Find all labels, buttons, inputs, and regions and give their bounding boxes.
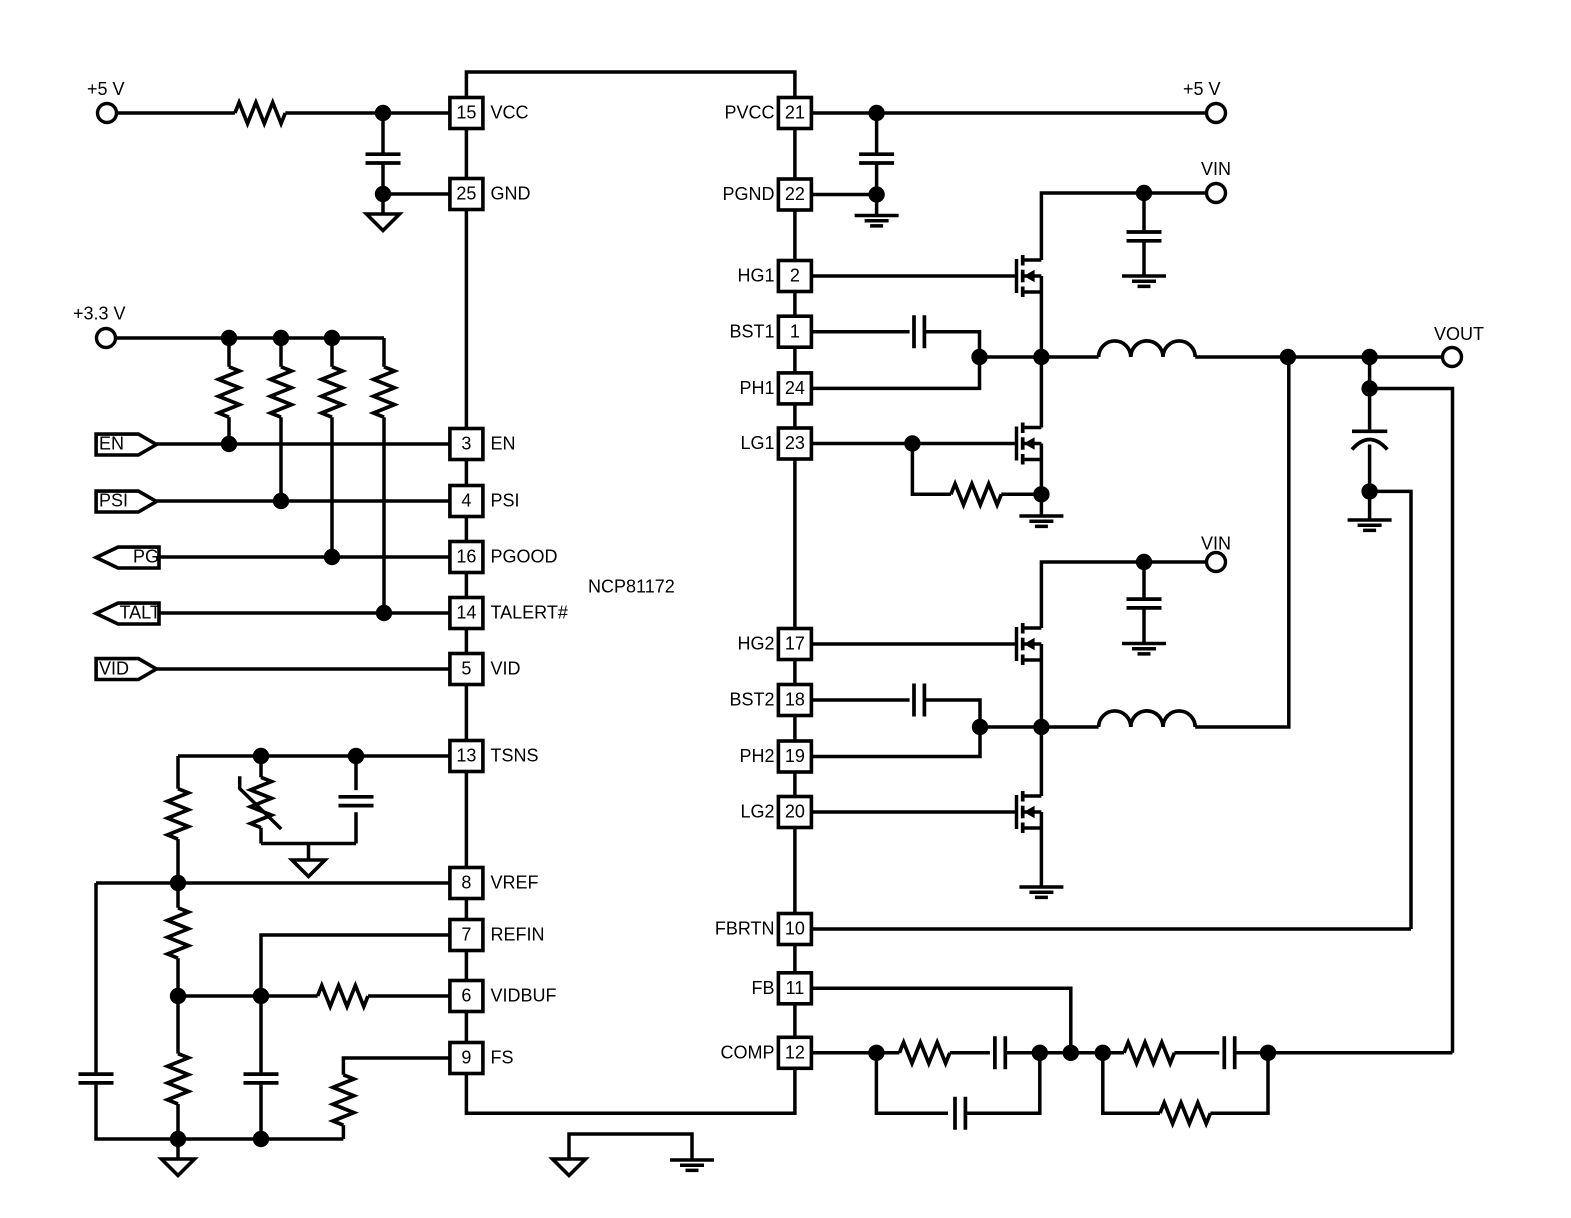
capacitor C5 (PVCC decoupling) (859, 113, 894, 195)
node rail junction R2 (221, 330, 237, 346)
svg-text:9: 9 (461, 1048, 471, 1068)
node C10 bottom junction (1361, 483, 1377, 499)
node switch 1 FET junction (1033, 349, 1049, 365)
svg-text:PVCC: PVCC (724, 103, 774, 123)
wire PH2 pin 19 to switch node 2 (811, 727, 980, 757)
wire Q4 drain to switch node 2 (1040, 727, 1044, 796)
pin 17 HG2 (737, 629, 811, 660)
resistor R1 (VCC series) (235, 103, 285, 124)
transistor Q3 (high-side phase 2) (1017, 623, 1042, 665)
ground (triangle) tie left (553, 1159, 586, 1176)
svg-text:VID: VID (491, 659, 521, 679)
svg-text:+5 V: +5 V (1183, 79, 1221, 99)
pin 23 LG1 (740, 428, 811, 459)
wire C12 to VOUT sense leg (1235, 1051, 1453, 1055)
wire +5V terminal to R1 (118, 111, 235, 115)
node VID flag (96, 659, 156, 680)
svg-text:HG1: HG1 (737, 266, 774, 286)
svg-text:2: 2 (790, 266, 800, 286)
svg-text:3: 3 (461, 434, 471, 454)
node PGND junction (868, 186, 884, 202)
wire LG1 pin 23 to Q2 gate (811, 442, 1015, 446)
capacitor C1 (VCC decoupling) (366, 154, 401, 163)
capacitor C10 (output, polarized) (1352, 389, 1387, 492)
terminal +5V (right) (1183, 79, 1226, 123)
pin 5 VID (450, 654, 521, 685)
svg-text:+3.3 V: +3.3 V (73, 304, 126, 324)
svg-text:PH1: PH1 (739, 378, 774, 398)
wire FBRTN pin 10 (811, 927, 1411, 931)
node VIN1 junction (1136, 185, 1152, 201)
wire C3 to bottom rail (96, 1085, 178, 1139)
wire LG2 pin 20 to Q4 gate (811, 810, 1015, 814)
wire sense node to right feedback leg (1370, 389, 1453, 1053)
pin 20 LG2 (740, 797, 811, 828)
wire Q2 drain to switch node 1 (1040, 357, 1044, 428)
wire Q3 drain to VIN2 rail (1041, 562, 1205, 628)
wire PG flag to pin 16 (159, 555, 450, 559)
wire TSNS pin 13 rail (178, 754, 450, 758)
node switch 2 BST junction (972, 719, 988, 735)
wire R1 to VCC pin 15 (285, 111, 450, 115)
svg-text:EN: EN (491, 434, 516, 454)
svg-text:23: 23 (785, 433, 805, 453)
svg-text:16: 16 (456, 547, 476, 567)
wire C10 bottom to ground (1368, 491, 1372, 520)
svg-text:VIDBUF: VIDBUF (491, 986, 557, 1006)
node PG flag (96, 547, 159, 569)
resistor R9 (divider bottom) (168, 996, 189, 1139)
svg-text:7: 7 (461, 925, 471, 945)
ground (power) below C6 (1122, 276, 1166, 286)
wire C9 to switch node 2 (924, 700, 980, 727)
wire bottom rail (178, 1137, 343, 1141)
svg-text:NCP81172: NCP81172 (588, 577, 675, 597)
svg-text:TSNS: TSNS (491, 746, 539, 766)
wire Q3 source to switch node / L2 (980, 644, 1099, 727)
svg-text:HG2: HG2 (737, 634, 774, 654)
transistor Q1 (high-side phase 1) (1017, 255, 1042, 297)
pin 4 PSI (450, 486, 520, 517)
wire VID flag to pin 5 (156, 667, 450, 671)
wire rail to ground (176, 1139, 180, 1159)
capacitor C4 (REFIN to gnd) (244, 996, 279, 1139)
resistor R3 (PSI pull-up) (271, 338, 292, 501)
node VOUT junction phase2 leg (1280, 349, 1296, 365)
svg-text:12: 12 (785, 1043, 805, 1063)
svg-text:PSI: PSI (491, 491, 520, 511)
wire C1 to GND pin 25 node (383, 164, 450, 194)
pin 6 VIDBUF (450, 981, 557, 1012)
wire R12 to C11 (950, 1051, 990, 1055)
pin 7 REFIN (450, 920, 545, 951)
resistor R6 (TSNS divider top) (168, 756, 189, 883)
svg-text:EN: EN (99, 434, 124, 454)
node PSI flag (96, 491, 156, 513)
node bottom rail junction right (253, 1131, 269, 1147)
resistor R8 (VIDBUF series) (318, 986, 368, 1007)
pin 1 BST1 (729, 316, 811, 347)
svg-text:21: 21 (785, 103, 805, 123)
svg-text:VOUT: VOUT (1434, 324, 1484, 344)
capacitor C3 (VREF to gnd) (79, 1074, 114, 1083)
node R11 source junction (1033, 486, 1049, 502)
pin 21 PVCC (724, 98, 811, 129)
wire TALT flag to pin 14 (159, 611, 450, 615)
wire Q1 source to switch node / L1 (980, 276, 1099, 357)
wire FS pin 9 to R10 (343, 1058, 450, 1075)
pin 12 COMP (721, 1037, 812, 1068)
node VIN2 junction (1136, 554, 1152, 570)
terminal VIN (phase 2) (1201, 534, 1231, 572)
svg-text:1: 1 (790, 321, 800, 341)
resistor R10 (FS set) (333, 1075, 354, 1139)
wire FB pin 11 to COMP net (811, 988, 1070, 1053)
capacitor C2 (TSNS filter) (339, 756, 374, 844)
pin 19 PH2 (739, 741, 811, 772)
wire VCC node down to C1 (381, 113, 385, 153)
pin 16 PGOOD (450, 542, 558, 573)
svg-text:18: 18 (785, 690, 805, 710)
wire REFIN pin 7 to divider (261, 935, 450, 996)
wire BST2 pin 18 to C9 (811, 698, 909, 702)
resistor R14 (feedback parallel, lower branch) (1103, 1053, 1268, 1124)
node VREF junction (170, 875, 186, 891)
pin 2 HG1 (737, 261, 811, 292)
svg-text:PSI: PSI (99, 491, 128, 511)
wire COMP pin 12 (811, 1051, 899, 1055)
svg-text:FS: FS (491, 1048, 514, 1068)
node feedback right junction (1260, 1045, 1276, 1061)
svg-text:COMP: COMP (721, 1043, 775, 1063)
node VCC junction (375, 105, 391, 121)
pin 18 BST2 (729, 685, 811, 716)
node rail junction R4 (324, 330, 340, 346)
svg-text:FB: FB (751, 978, 774, 998)
wire +3.3V rail (117, 336, 385, 340)
node switch 1 BST junction (971, 349, 987, 365)
wire L1 to VOUT (1195, 355, 1441, 359)
svg-text:19: 19 (785, 746, 805, 766)
resistor R5 (TALERT# pull-up) (374, 338, 395, 613)
ground (triangle) bottom left (162, 1159, 195, 1176)
wire PGND pin 22 to C5 (811, 193, 876, 197)
capacitor C13 (comp parallel, lower branch) (876, 1053, 1039, 1130)
svg-text:GND: GND (491, 184, 531, 204)
svg-text:FBRTN: FBRTN (715, 919, 775, 939)
wire HG1 pin 2 to Q1 gate (811, 274, 1015, 278)
capacitor C11 (comp series) (995, 1036, 1005, 1069)
node PSI junction (273, 493, 289, 509)
wire R8 to VIDBUF pin 6 (368, 994, 450, 998)
wire VREF left leg down to C3 (94, 883, 98, 1072)
wire tie to ground (307, 844, 311, 860)
node rail junction R3 (273, 330, 289, 346)
pin 9 FS (450, 1043, 514, 1074)
pin 24 PH1 (739, 373, 811, 404)
inductor L2 (1099, 711, 1196, 727)
wire VIDBUF rail left (178, 994, 318, 998)
wire Q2 source to ground (1040, 444, 1044, 517)
node TSNS junction RT1 (253, 748, 269, 764)
ground (power) below C5 (855, 216, 899, 226)
capacitor C9 (bootstrap 2) (914, 684, 924, 717)
svg-text:TALERT#: TALERT# (491, 603, 568, 623)
node bottom rail junction left (170, 1131, 186, 1147)
node TALT flag (96, 603, 161, 625)
wire PVCC pin 21 to +5V terminal (811, 111, 1205, 115)
wire Q4 source to ground (1040, 812, 1044, 887)
svg-text:20: 20 (785, 802, 805, 822)
resistor R7 (VREF-VIDBUF divider) (168, 883, 189, 996)
wire BST1 pin 1 to C7 (811, 330, 909, 334)
node switch 2 FET junction (1033, 719, 1049, 735)
svg-text:VCC: VCC (491, 103, 529, 123)
terminal +3.3V (73, 304, 126, 348)
pin 22 PGND (722, 179, 811, 210)
pin 8 VREF (450, 868, 539, 899)
wire VREF pin 8 rail (96, 881, 450, 885)
node EN junction (221, 436, 237, 452)
node VIDBUF junction REFIN (253, 988, 269, 1004)
ground (power) tie right (670, 1160, 714, 1170)
resistor R12 (comp) (899, 1042, 949, 1063)
ground (power) below C10 (1348, 520, 1392, 530)
terminal VIN (phase 1) (1201, 159, 1231, 203)
IC U1 NCP81172 outline (466, 72, 795, 1113)
svg-text:5: 5 (461, 659, 471, 679)
thermistor RT1 (240, 756, 282, 844)
capacitor C12 (feedback series) (1224, 1036, 1234, 1069)
svg-text:17: 17 (785, 634, 805, 654)
resistor R2 (EN pull-up) (219, 338, 240, 444)
svg-text:BST1: BST1 (729, 321, 774, 341)
svg-text:10: 10 (785, 919, 805, 939)
wire C11 to FB node (1005, 1051, 1124, 1055)
svg-text:PH2: PH2 (739, 746, 774, 766)
pin 14 TALERT# (450, 598, 568, 629)
svg-text:14: 14 (456, 603, 476, 623)
svg-text:BST2: BST2 (729, 690, 774, 710)
pin 15 VCC (450, 98, 529, 129)
node LG1 junction (904, 435, 920, 451)
svg-text:VIN: VIN (1201, 159, 1231, 179)
node GND junction (375, 186, 391, 202)
pin 10 FBRTN (715, 914, 812, 945)
svg-text:8: 8 (461, 873, 471, 893)
svg-text:REFIN: REFIN (491, 925, 545, 945)
svg-text:VID: VID (99, 659, 129, 679)
svg-text:11: 11 (786, 978, 805, 998)
pin 13 TSNS (450, 741, 539, 772)
node comp mid junction B (1095, 1045, 1111, 1061)
capacitor C6 (VIN1 input) (1127, 193, 1162, 276)
resistor R13 (feedback series) (1124, 1042, 1174, 1063)
svg-text:24: 24 (785, 378, 805, 398)
resistor R11 (gate-source 1) (912, 444, 1041, 505)
wire HG2 pin 17 to Q3 gate (811, 642, 1015, 646)
ground (analog, triangle) (367, 214, 400, 231)
node EN flag (96, 434, 156, 456)
svg-text:13: 13 (456, 746, 476, 766)
ground (triangle) below RT1/C2 (292, 860, 325, 877)
wire ground tie bracket (569, 1134, 692, 1160)
svg-text:15: 15 (456, 103, 476, 123)
svg-text:PGOOD: PGOOD (491, 547, 558, 567)
svg-text:PG: PG (133, 547, 159, 567)
transistor Q4 (low-side phase 2) (1017, 791, 1042, 833)
svg-text:VIN: VIN (1201, 534, 1231, 554)
node COMP junction (868, 1045, 884, 1061)
svg-text:25: 25 (456, 184, 476, 204)
transistor Q2 (low-side phase 1) (1017, 423, 1042, 465)
wire R13 to C12 (1174, 1051, 1219, 1055)
svg-text:LG1: LG1 (740, 433, 774, 453)
pin 11 FB (751, 973, 811, 1004)
node PGOOD junction (324, 549, 340, 565)
svg-text:TALT: TALT (120, 603, 161, 623)
wire PH1 pin 24 to switch node 1 (811, 357, 979, 388)
capacitor C8 (VIN2 input) (1127, 562, 1162, 644)
svg-text:22: 22 (785, 184, 805, 204)
wire EN flag to pin 3 (156, 442, 450, 446)
svg-text:6: 6 (461, 986, 471, 1006)
ground (power) below Q4 (1019, 887, 1063, 897)
svg-text:4: 4 (461, 491, 471, 511)
wire Q1 drain to VIN rail (1041, 193, 1205, 260)
wire GND node to ground (381, 194, 385, 214)
wire C7 to switch node 1 (924, 332, 979, 357)
wire RT1/C2 bottom tie (261, 842, 356, 846)
inductor L1 (1099, 341, 1196, 357)
wire VOUT node down to sense node (1368, 357, 1372, 389)
terminal +5V (left) (87, 79, 125, 123)
wire PSI flag to pin 4 (156, 499, 450, 503)
capacitor C7 (bootstrap 1) (914, 315, 924, 348)
wire C10 bottom to FBRTN leg (1370, 491, 1411, 929)
resistor R4 (PGOOD pull-up) (322, 338, 343, 557)
node PVCC junction (868, 105, 884, 121)
node VOUT junction cap leg (1361, 349, 1377, 365)
svg-text:VREF: VREF (491, 873, 539, 893)
node TALERT junction (376, 605, 392, 621)
pin 3 EN (450, 429, 516, 460)
wire PGND to ground (875, 195, 879, 216)
node FB junction (1063, 1045, 1079, 1061)
node VOUT sense junction (1361, 380, 1377, 396)
svg-text:LG2: LG2 (740, 802, 774, 822)
svg-text:PGND: PGND (722, 184, 774, 204)
svg-text:+5 V: +5 V (87, 79, 125, 99)
wire L2 up to VOUT node (1195, 357, 1289, 727)
ground (power) below C8 (1122, 644, 1166, 654)
ground (power) below Q2 (1019, 516, 1063, 526)
node TSNS junction C2 (348, 748, 364, 764)
terminal VOUT (1434, 324, 1484, 367)
node comp mid junction A (1032, 1045, 1048, 1061)
node VIDBUF junction R7 (170, 988, 186, 1004)
pin 25 GND (450, 179, 531, 210)
